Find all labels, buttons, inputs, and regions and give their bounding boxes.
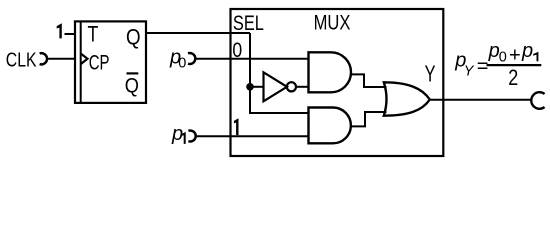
svg-text:CP: CP bbox=[89, 52, 110, 75]
junction dot select/inverter bbox=[246, 83, 254, 91]
connector CLK (off-page, arc) bbox=[40, 53, 47, 64]
AND gate G1 (top) bbox=[309, 52, 352, 92]
wire select vertical with corner to AND2 bbox=[250, 33, 309, 113]
label 1 (select value) bbox=[234, 118, 239, 135]
flip-flop inner double-edge line bbox=[80, 21, 82, 103]
clock edge triangle at CP bbox=[81, 54, 88, 65]
wire AND1 output to OR bbox=[351, 74, 387, 87]
connector p0 (arc) bbox=[188, 53, 195, 64]
svg-text:SEL: SEL bbox=[233, 11, 264, 35]
inverter bubble bbox=[287, 82, 296, 91]
wire Y output bbox=[430, 99, 531, 101]
svg-text:T: T bbox=[88, 21, 99, 46]
connector output (arc) bbox=[531, 92, 544, 109]
wire p0 to AND1 bbox=[195, 58, 308, 60]
svg-text:2: 2 bbox=[508, 65, 518, 90]
svg-text:+: + bbox=[509, 45, 521, 67]
overline of Q-bar bbox=[127, 72, 139, 74]
wire p1 to AND2 bbox=[196, 135, 309, 137]
wire inverter to AND1 bbox=[296, 86, 308, 88]
wire CLK to flip-flop CP bbox=[48, 58, 75, 60]
svg-text:0: 0 bbox=[178, 55, 186, 71]
wire select to inverter bbox=[250, 86, 264, 88]
MUX box bbox=[231, 9, 444, 156]
svg-text:p: p bbox=[171, 123, 183, 145]
flip-flop U1 box bbox=[75, 21, 146, 103]
svg-text:Q: Q bbox=[126, 24, 141, 49]
svg-text:MUX: MUX bbox=[314, 11, 351, 34]
fraction bar bbox=[487, 64, 542, 66]
wire 1 to T input bbox=[65, 33, 76, 35]
svg-text:p: p bbox=[521, 40, 533, 62]
svg-text:Y: Y bbox=[425, 61, 436, 87]
wire AND2 output to OR bbox=[351, 112, 387, 126]
svg-text:CLK: CLK bbox=[6, 50, 37, 72]
wire Q to MUX select line bbox=[146, 32, 251, 34]
AND gate G2 (bottom) bbox=[309, 108, 351, 144]
label 1 (constant on T input) bbox=[57, 23, 62, 38]
svg-text:0: 0 bbox=[499, 49, 507, 65]
OR gate G3 bbox=[384, 82, 430, 115]
svg-text:Y: Y bbox=[464, 63, 475, 79]
connector p1 (arc) bbox=[188, 131, 195, 142]
svg-text:=: = bbox=[477, 56, 489, 78]
svg-text:Q: Q bbox=[125, 73, 139, 97]
inverter U2 triangle bbox=[264, 72, 288, 101]
